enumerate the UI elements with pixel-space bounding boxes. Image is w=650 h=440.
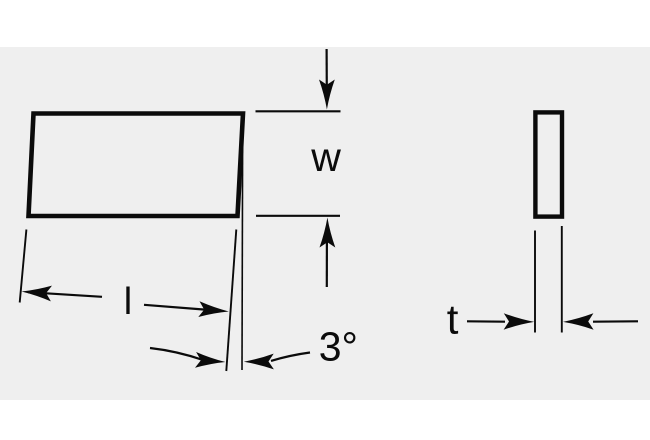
- front view: parallelogram outline (3° sides): [29, 114, 244, 217]
- left edge extension line: [20, 230, 27, 303]
- angle arc left arrowhead: [195, 352, 226, 368]
- dimension w: upper leader line: [326, 49, 328, 90]
- svg-text:l: l: [124, 281, 132, 323]
- side view: thin rectangle: [535, 112, 562, 216]
- dimension t: right-pointing arrowhead: [504, 313, 535, 329]
- angle arc right arrowhead: [244, 354, 274, 370]
- right edge extension line (3° slant): [226, 230, 236, 372]
- angle arc left part: [150, 348, 203, 360]
- dimension t: left leader line: [467, 320, 505, 323]
- angle arc right part: [271, 353, 310, 361]
- dimension t: right leader line: [593, 320, 638, 323]
- svg-text:t: t: [447, 296, 459, 343]
- dimension t: left extension line: [534, 231, 536, 333]
- dimension l: right arrowhead: [198, 301, 229, 317]
- dimension t: left-pointing arrowhead: [563, 313, 594, 329]
- dimension w: up arrowhead: [320, 218, 336, 248]
- dimension l: right segment: [144, 305, 205, 310]
- dimension w: lower leader line: [326, 240, 328, 287]
- dimension l: left arrowhead: [22, 286, 53, 302]
- dimension w: down arrowhead: [319, 80, 335, 110]
- dimension t: right extension line: [561, 226, 563, 333]
- dimension l: left segment: [28, 292, 102, 297]
- vertical reference line (0°) from top-right corner: [241, 114, 244, 370]
- dimension w: lower extension line: [256, 215, 340, 217]
- dimension w: upper extension line: [256, 110, 341, 112]
- svg-text:w: w: [310, 134, 341, 180]
- svg-text:3°: 3°: [319, 324, 358, 370]
